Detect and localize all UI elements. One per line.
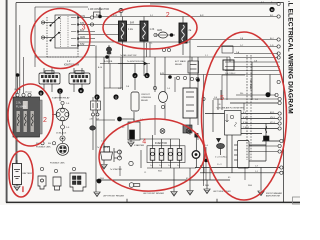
svg-text:BATTERY: BATTERY bbox=[23, 172, 33, 175]
svg-text:5: 5 bbox=[220, 95, 224, 102]
svg-text:W-B: W-B bbox=[205, 185, 210, 187]
svg-text:1-D: 1-D bbox=[270, 45, 274, 47]
svg-text:1 L/J COM-C: 1 L/J COM-C bbox=[215, 157, 228, 159]
svg-text:2: 2 bbox=[166, 12, 170, 19]
svg-text:VOLUME AIR FLOW METER: VOLUME AIR FLOW METER bbox=[217, 107, 245, 110]
svg-text:STARTER RELAY: STARTER RELAY bbox=[52, 97, 70, 100]
svg-text:RELAY: RELAY bbox=[175, 63, 183, 66]
svg-text:B-W: B-W bbox=[96, 14, 101, 17]
svg-text:B-R: B-R bbox=[130, 22, 134, 25]
svg-text:AMPLIFIER RH: AMPLIFIER RH bbox=[266, 195, 281, 198]
svg-text:1-4: 1-4 bbox=[177, 165, 180, 167]
svg-text:B: B bbox=[40, 91, 42, 95]
svg-text:VC-1: VC-1 bbox=[270, 122, 276, 124]
svg-text:1-B COM-C: 1-B COM-C bbox=[225, 73, 236, 75]
svg-text:INJECTOR: INJECTOR bbox=[155, 142, 167, 145]
svg-text:1-4: 1-4 bbox=[168, 165, 171, 167]
svg-text:AM2: AM2 bbox=[157, 29, 163, 32]
svg-text:B-W: B-W bbox=[113, 15, 117, 17]
svg-text:A 16 J/B: A 16 J/B bbox=[104, 60, 113, 63]
svg-text:CIRCUIT: CIRCUIT bbox=[141, 94, 151, 96]
svg-text:4 VS: 4 VS bbox=[243, 117, 248, 119]
svg-text:LEFT FRONT FENDER: LEFT FRONT FENDER bbox=[143, 193, 165, 195]
svg-text:W-B: W-B bbox=[100, 178, 105, 180]
svg-text:1 J: 1 J bbox=[205, 55, 208, 57]
svg-text:W-B: W-B bbox=[248, 185, 253, 187]
svg-text:1-4: 1-4 bbox=[159, 165, 162, 167]
svg-text:FUSIBLE LINK: FUSIBLE LINK bbox=[50, 163, 65, 165]
svg-text:B-R: B-R bbox=[200, 15, 204, 17]
svg-text:(2.0-5): (2.0-5) bbox=[25, 92, 32, 94]
svg-text:FH: FH bbox=[48, 143, 51, 145]
svg-text:To TAILLIGHT SW: To TAILLIGHT SW bbox=[120, 54, 136, 57]
svg-text:1 2a: 1 2a bbox=[128, 28, 133, 31]
svg-text:LEFT FRONT FENDER: LEFT FRONT FENDER bbox=[103, 196, 125, 198]
svg-text:4 VC: 4 VC bbox=[243, 122, 248, 124]
svg-text:2.0L: 2.0L bbox=[16, 101, 22, 105]
svg-text:.L ELECTRICAL WIRING DIAGRAM: .L ELECTRICAL WIRING DIAGRAM bbox=[286, 1, 293, 115]
svg-text:ST2: ST2 bbox=[80, 43, 85, 46]
svg-text:RELAY: RELAY bbox=[141, 99, 149, 102]
svg-text:B-W: B-W bbox=[160, 73, 164, 75]
svg-text:FUSIBLE LINK: FUSIBLE LINK bbox=[36, 147, 51, 149]
svg-text:FL MAIN: FL MAIN bbox=[16, 105, 26, 109]
svg-text:7 E2-1: 7 E2-1 bbox=[243, 127, 250, 129]
svg-text:1-4: 1-4 bbox=[150, 165, 153, 167]
svg-text:3: 3 bbox=[82, 25, 86, 32]
svg-text:AM2: AM2 bbox=[80, 36, 86, 39]
svg-text:LEFT SIDE COVER: LEFT SIDE COVER bbox=[213, 191, 231, 193]
svg-text:B-J: B-J bbox=[270, 38, 273, 40]
svg-text:ECT MAIN: ECT MAIN bbox=[175, 60, 186, 63]
svg-text:4: 4 bbox=[142, 138, 146, 145]
svg-text:16 BLACK: 16 BLACK bbox=[56, 132, 67, 135]
svg-text:1 2b: 1 2b bbox=[150, 28, 155, 31]
svg-text:To ST RELAY: To ST RELAY bbox=[97, 146, 110, 149]
svg-text:2: 2 bbox=[43, 117, 47, 124]
svg-text:OPENING: OPENING bbox=[141, 97, 151, 99]
svg-text:1-C: 1-C bbox=[240, 45, 244, 47]
svg-text:1 1B CONNECTOR: 1 1B CONNECTOR bbox=[88, 8, 109, 11]
svg-text:EFI MAIN: EFI MAIN bbox=[249, 80, 252, 90]
svg-text:To STARTER: To STARTER bbox=[110, 168, 122, 171]
svg-text:1 L/J: 1 L/J bbox=[217, 164, 221, 166]
svg-text:To IGNITION SW: To IGNITION SW bbox=[127, 61, 145, 63]
